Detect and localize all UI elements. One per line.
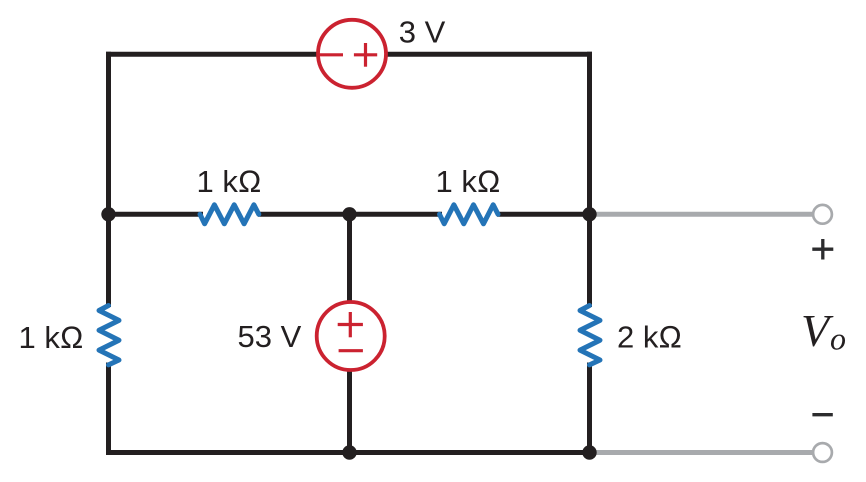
wire middle rail right segment <box>497 212 590 217</box>
resistor R1 1 kOhm horizontal left <box>200 205 259 224</box>
resistor R4 2 kOhm vertical right <box>580 306 600 365</box>
terminal bottom open circle <box>813 443 832 462</box>
svg-text:o: o <box>830 321 846 357</box>
output minus mark <box>812 413 832 416</box>
wire left rail upper <box>106 52 111 307</box>
V2 minus sign <box>339 349 363 352</box>
wire right rail upper <box>587 52 592 307</box>
terminal top open circle <box>813 205 832 224</box>
node D center bottom <box>342 445 356 459</box>
svg-text:1 kΩ: 1 kΩ <box>197 164 262 199</box>
wire bottom rail <box>106 450 592 455</box>
svg-text:3 V: 3 V <box>399 15 446 50</box>
wire top rail <box>106 52 592 57</box>
resistor R3 1 kOhm vertical left <box>99 306 119 365</box>
wire left rail lower <box>106 363 111 456</box>
wire right rail lower <box>587 363 592 456</box>
svg-text:2 kΩ: 2 kΩ <box>617 320 682 355</box>
svg-text:53 V: 53 V <box>238 319 302 354</box>
wire gray lead top <box>590 212 813 217</box>
V2 plus sign <box>338 312 363 337</box>
svg-text:1 kΩ: 1 kΩ <box>436 164 501 199</box>
node B center middle <box>342 207 356 221</box>
node A left middle <box>101 207 115 221</box>
voltage source V2 53V circle <box>317 302 385 370</box>
V1 minus sign <box>318 53 343 56</box>
node E right bottom <box>582 445 596 459</box>
voltage source V1 3V circle <box>318 20 386 88</box>
wire middle rail left segment <box>109 212 204 217</box>
V1 plus sign <box>354 43 377 67</box>
svg-text:1 kΩ: 1 kΩ <box>19 320 84 355</box>
wire middle rail center segment <box>258 212 442 217</box>
node C right middle <box>582 207 596 221</box>
resistor R2 1 kOhm horizontal right <box>440 205 499 224</box>
wire center column <box>347 214 352 452</box>
output plus mark <box>812 239 833 260</box>
wire gray lead bottom <box>590 450 813 455</box>
